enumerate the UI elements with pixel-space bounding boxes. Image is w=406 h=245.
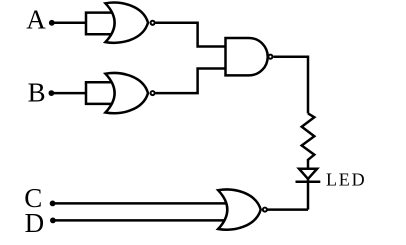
svg-text:D: D: [25, 208, 44, 238]
svg-text:A: A: [26, 5, 46, 35]
svg-text:LED: LED: [326, 170, 366, 190]
svg-text:B: B: [28, 78, 46, 108]
